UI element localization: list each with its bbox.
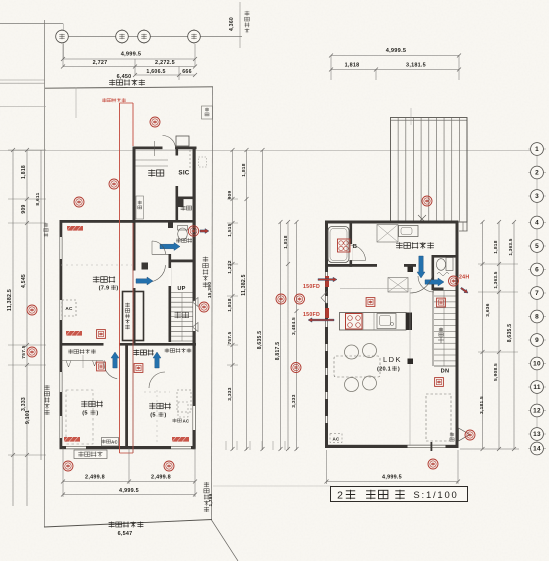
kitchen counter [340, 313, 407, 331]
svg-text:(20.1: (20.1 [377, 367, 391, 373]
svg-text:6: 6 [535, 267, 539, 274]
label 隣地境界線 6,547 [109, 522, 144, 528]
red circled markers middle col [276, 294, 286, 304]
grid line y150 [0, 150, 530, 152]
bottom dim right plan [326, 450, 328, 484]
bottom lot boundary [44, 520, 212, 528]
svg-text:AC: AC [333, 437, 340, 442]
svg-text:12: 12 [533, 408, 541, 415]
label 隣地境界線 lower vertical [204, 482, 209, 512]
stairs 2F [433, 290, 456, 292]
svg-text:8,635.5: 8,635.5 [257, 331, 263, 350]
svg-text:3,181.5: 3,181.5 [479, 396, 485, 414]
red circled markers left col [27, 305, 37, 315]
road boundary line [45, 87, 213, 88]
svg-text:2,272.5: 2,272.5 [155, 60, 175, 66]
洗面脱衣室 label [396, 242, 434, 249]
stairs 1F [171, 292, 193, 294]
windows left wall [60, 237, 63, 259]
2F interior walls [325, 264, 377, 267]
svg-text:): ) [96, 411, 98, 417]
fire separation red lines [119, 103, 121, 453]
svg-text:8,635.5: 8,635.5 [507, 324, 513, 343]
svg-text:14: 14 [533, 446, 541, 453]
svg-text:11: 11 [533, 384, 540, 391]
vanity [399, 226, 419, 237]
svg-text:AC: AC [111, 440, 118, 445]
bath tub [328, 227, 349, 263]
svg-text:UP: UP [177, 286, 185, 292]
entrance door opening + arc [163, 147, 176, 150]
物入 [178, 197, 196, 200]
svg-text:1,515: 1,515 [227, 223, 233, 236]
blue arrows 2F [417, 256, 425, 278]
洋室2 label [81, 401, 103, 407]
red circled vent left wall [295, 294, 305, 304]
SIC divider wall [176, 147, 179, 156]
svg-text:3: 3 [535, 193, 539, 200]
svg-text:11,382.5: 11,382.5 [241, 274, 247, 295]
closet front 洋室2 [61, 360, 103, 362]
svg-text:3,181.5: 3,181.5 [406, 63, 426, 69]
AC 洋室2 boxed bottom [102, 438, 119, 447]
red sq markers 2F [366, 298, 375, 307]
svg-text:AC: AC [183, 419, 190, 424]
window swing chevron left wall [321, 292, 327, 304]
svg-text:4,999.5: 4,999.5 [382, 475, 402, 481]
label 隣地境界線 left vertical [44, 385, 49, 415]
svg-text:24H: 24H [459, 275, 469, 281]
玄関 step lines [136, 159, 169, 161]
将来AC 洋室3 [178, 402, 188, 417]
svg-text:LDK: LDK [383, 355, 402, 364]
vertical ref x240 + 4,360 label [239, 2, 241, 48]
svg-text:3,484.5: 3,484.5 [291, 317, 297, 335]
svg-text:1,363.5: 1,363.5 [508, 238, 513, 255]
svg-text:13: 13 [533, 431, 541, 438]
svg-text:757.5: 757.5 [227, 331, 232, 344]
svg-text:2: 2 [535, 170, 539, 177]
svg-text:4,999.5: 4,999.5 [121, 52, 142, 58]
svg-text:6,450: 6,450 [117, 74, 132, 80]
SIC window [176, 136, 189, 146]
windows bottom wall [66, 446, 86, 449]
dashed future rect LDK [426, 394, 451, 441]
circled grid numbers 1-14 [536, 142, 538, 452]
svg-text:4,360: 4,360 [229, 17, 235, 31]
closet labels [68, 349, 96, 354]
svg-text:6,547: 6,547 [118, 531, 133, 537]
24H vent [437, 273, 449, 276]
hall door arcs 2F [410, 270, 433, 293]
stove [346, 314, 363, 330]
svg-text:DN: DN [441, 369, 450, 375]
svg-text:9,101: 9,101 [25, 410, 31, 424]
svg-text:(5: (5 [150, 413, 156, 419]
svg-text:1,212: 1,212 [227, 260, 233, 273]
svg-text:150FD: 150FD [303, 284, 320, 290]
dining table + chairs [334, 356, 380, 377]
svg-text:1: 1 [535, 146, 539, 153]
right lot boundary [212, 87, 213, 520]
dashed future rect 洋室2 [66, 390, 93, 444]
red boxed vent markers 1F [134, 364, 143, 373]
svg-text:): ) [116, 286, 118, 292]
sink [377, 314, 396, 329]
svg-text:3,333: 3,333 [227, 387, 233, 400]
toilet fixture 1F [178, 228, 188, 240]
bottom dims left plan [62, 448, 64, 497]
washer red box + B [338, 239, 351, 252]
label 道路境界線 + 6,450 [109, 79, 145, 85]
2F left wall hatch ticks [326, 272, 328, 279]
洋室1 door stub + arc [142, 263, 149, 270]
divider y343 [60, 343, 104, 346]
svg-text:8,611: 8,611 [35, 192, 41, 205]
hall label + blue arrows [133, 350, 153, 356]
interior walls 1F [133, 223, 136, 343]
X-hatch box 2 [388, 278, 408, 293]
door node [408, 267, 414, 273]
svg-text:4,545: 4,545 [21, 274, 27, 288]
door arc toilet 1F [152, 241, 166, 255]
middle dimension column [232, 150, 234, 450]
2F perimeter walls [325, 221, 459, 224]
svg-text:1,799: 1,799 [208, 493, 213, 506]
svg-text:SIC: SIC [178, 170, 189, 177]
red circled marker roof [422, 196, 432, 206]
svg-text:1,818: 1,818 [493, 240, 499, 253]
right dimension column [482, 222, 484, 449]
svg-text:(7.9: (7.9 [99, 286, 110, 292]
svg-text:1,606.5: 1,606.5 [146, 69, 165, 75]
svg-text:2,727: 2,727 [93, 60, 108, 66]
red circled below plan [428, 459, 438, 469]
toilet fixture 2F [446, 258, 453, 271]
roof / balcony hatch top right [391, 118, 468, 223]
svg-text:2,499.8: 2,499.8 [85, 475, 105, 481]
svg-text:5,908.5: 5,908.5 [493, 363, 499, 381]
svg-text:): ) [164, 413, 166, 419]
blue arrow toilet [160, 243, 180, 251]
door arcs bottom rooms [104, 360, 117, 379]
grid marker circles top: to ni ha i [61, 29, 63, 44]
kitchen half walls [340, 288, 412, 290]
grid line top [56, 36, 242, 38]
AC 2F [330, 434, 342, 443]
洋室1 label [93, 276, 115, 283]
svg-text:1,363.5: 1,363.5 [493, 271, 498, 288]
side triangle vent [459, 428, 470, 441]
svg-text:3,333: 3,333 [291, 394, 297, 407]
right-plan west dims [280, 222, 282, 450]
svg-text:5: 5 [535, 243, 539, 250]
svg-text:4: 4 [535, 220, 539, 227]
svg-text:666: 666 [182, 69, 192, 75]
svg-text:AC: AC [65, 306, 73, 311]
svg-text:8,817.5: 8,817.5 [275, 342, 281, 361]
red fire label [102, 98, 126, 102]
tap box outside [202, 106, 213, 119]
svg-text:9: 9 [535, 337, 539, 344]
red circled vent markers 1F [150, 117, 160, 127]
svg-text:(5: (5 [82, 411, 88, 417]
AC dashed box [62, 300, 76, 316]
svg-text:8: 8 [535, 314, 539, 321]
物入 label [181, 206, 192, 211]
svg-text:11,382.5: 11,382.5 [7, 289, 13, 311]
1F toilet vent marker [188, 226, 198, 236]
svg-text:7: 7 [535, 290, 539, 297]
svg-text:1,818: 1,818 [227, 298, 233, 311]
svg-text:B: B [353, 244, 357, 250]
windows right wall [193, 301, 196, 331]
svg-text:2: 2 [337, 491, 343, 502]
svg-text:909: 909 [227, 191, 233, 200]
svg-text:1,818: 1,818 [345, 63, 360, 69]
svg-text:150FD: 150FD [303, 312, 320, 318]
bath door arc [350, 245, 366, 261]
1F perimeter walls [60, 220, 136, 223]
svg-text:3,636: 3,636 [485, 303, 491, 316]
svg-text:4,999.5: 4,999.5 [386, 48, 407, 54]
svg-text:10: 10 [533, 361, 541, 368]
svg-text:): ) [398, 367, 400, 373]
window 2F bottom wall [408, 445, 446, 448]
mid column line ends [225, 441, 227, 450]
svg-text:1,818: 1,818 [21, 165, 27, 179]
toilet walls 1F [169, 260, 196, 263]
label 隣地境界線 15,390 vertical [203, 257, 208, 288]
X-hatch box washroom [377, 225, 398, 243]
title box 2階 平面図 S:1/100 [331, 487, 468, 502]
dashed future closet 洋室3 [177, 390, 191, 412]
svg-text:1,818: 1,818 [283, 235, 289, 248]
shoe cabinet 下駄箱 [136, 196, 144, 219]
svg-text:2,499.8: 2,499.8 [151, 475, 171, 481]
svg-text:15,390: 15,390 [207, 282, 213, 298]
svg-text:909: 909 [21, 204, 27, 213]
red hatched wall marks [67, 226, 83, 231]
svg-text:3,333: 3,333 [21, 397, 27, 411]
walk-in closet [123, 292, 144, 341]
svg-text:4,999.5: 4,999.5 [119, 488, 139, 494]
svg-text:757.5: 757.5 [21, 345, 27, 358]
玄関 label [148, 169, 164, 176]
洋室外壁 boxed label [74, 450, 107, 459]
left dimension column [12, 150, 14, 506]
洋室3 label [149, 403, 171, 409]
svg-text:S:1/100: S:1/100 [413, 490, 458, 501]
svg-text:1,818: 1,818 [241, 163, 247, 176]
